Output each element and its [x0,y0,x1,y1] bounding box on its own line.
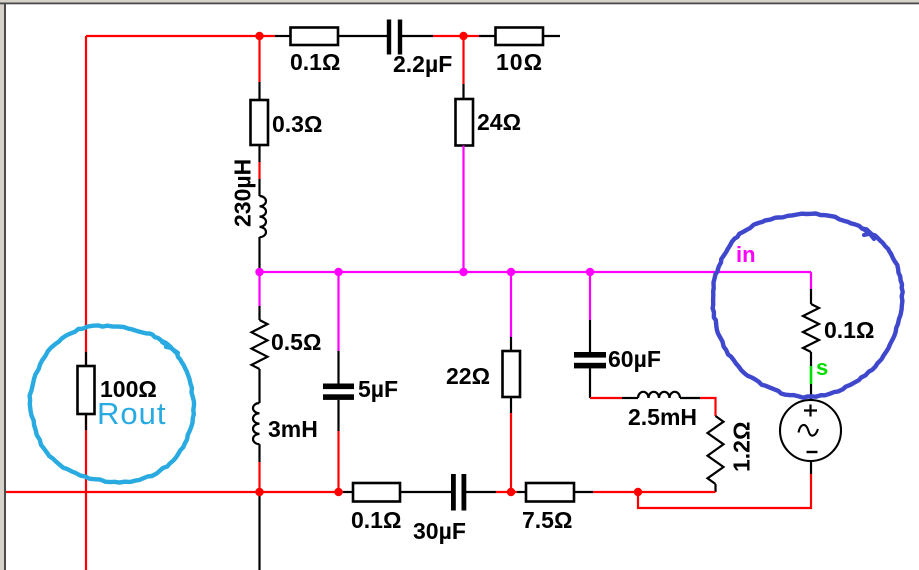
wire: R0.1 to C2.2 black [338,35,387,37]
wire: R22 black then red to bottom bus [510,397,512,413]
svg-text:60µF: 60µF [608,346,661,372]
wire: L2.5 black then red to corner [680,397,700,399]
svg-text:3mH: 3mH [268,416,318,442]
resistor 0.1Ω (bottom) [353,483,400,502]
wire: branch 60µF magenta [589,272,591,320]
svg-text:7.5Ω: 7.5Ω [522,507,572,533]
wire: red return jog to source [638,474,811,508]
capacitor 60µF [574,352,606,368]
wire: black continuation below bottom bus [258,492,260,570]
resistor 24Ω [456,99,474,146]
wire: black lead into R 10 [479,35,496,37]
node bus dot 2 [334,268,342,276]
svg-text:0.3Ω: 0.3Ω [272,111,322,137]
svg-text:in: in [736,242,756,267]
wire: node B red drop [462,36,464,84]
capacitor 2.2µF [387,20,402,55]
capacitor 5µF [323,384,354,400]
wire: black lead into R 24 [462,84,464,99]
wire: black lead into C5 [337,351,339,384]
wire: branch 22Ω magenta [510,272,512,337]
node bus dot 3 [459,268,467,276]
svg-text:10Ω: 10Ω [496,49,543,75]
node A: junction dot (259,36) [255,32,263,40]
resistor 0.1Ω (right zigzag) [803,304,819,352]
inductor 230µH [260,196,266,237]
svg-text:2.2µF: 2.2µF [393,51,452,77]
wire: bottom red bus left part [6,491,343,493]
wire: black lead into R 22 [510,337,512,351]
resistor 0.3Ω [251,100,269,145]
wire: R0.5 to L3m [258,369,260,403]
svg-text:0.5Ω: 0.5Ω [271,329,321,355]
node bus dot 5 [586,268,594,276]
wire: red into top-right node [433,35,479,37]
wire: black lead into R 7.5 [517,491,526,493]
wire: branch 0.5Ω magenta [258,272,260,306]
svg-text:1.2Ω: 1.2Ω [729,422,755,472]
wire: C5 black then red to bottom bus [337,400,339,431]
annotation: cyan freehand loop around Rout [30,325,194,482]
svg-text:0.1Ω: 0.1Ω [290,49,340,75]
capacitor 30µF [451,474,466,511]
wire: black lead into R 0.1 right [810,289,812,304]
resistor 0.5Ω (zigzag) [252,320,268,369]
svg-text:22Ω: 22Ω [446,363,490,389]
node bus dot 1 [255,268,263,276]
wire: L230 to bus [258,237,260,272]
resistor 100Ω (Rout) [78,366,95,414]
node B: junction dot (464,36) [459,32,467,40]
resistor 0.1Ω (top) [291,28,339,46]
node bottom dot 4 [634,488,642,496]
wire: bus end drop magenta at in node [810,272,812,289]
wire: C2.2 right black then red to node [402,35,433,37]
wire: branch 5µF magenta [337,272,339,351]
svg-text:30µF: 30µF [413,518,466,544]
wire: black lead into C60 [589,320,591,352]
wire: black lead into R 0.3 [258,82,260,100]
svg-text:0.1Ω: 0.1Ω [824,317,874,343]
wire: source bottom black stub [810,461,812,474]
svg-text:2.5mH: 2.5mH [628,404,697,430]
node bottom dot 1 [255,488,263,496]
svg-text:230µH: 230µH [230,159,256,227]
wire: top horizontal red y=36 [86,35,275,37]
node bus dot 4 [507,268,515,276]
wire: red from corner to L2.5 [590,397,622,399]
node bottom dot 3 [507,488,515,496]
wire: C60 down to corner [589,368,591,398]
wire: R7.5 black stub then red to 1.2Ω bottom [574,491,593,493]
wire: black lead into R 0.1 bottom [343,491,353,493]
wire: top black lead into R 0.1 [275,35,291,37]
wire: red drop from node A [258,36,260,82]
wire: L3m black then red to bottom bus [258,444,260,462]
wire: magenta mid bus y=272 [260,271,812,273]
wire: C30 black then red to node [466,491,496,493]
wire: R0.1b to C30 [400,491,451,493]
node bottom dot 2 [334,488,342,496]
wire: left vertical red rail x=86 [85,36,87,570]
wire: black stubs around R100 [85,352,87,430]
svg-text:Rout: Rout [97,396,166,431]
wire: black lead into L2.5 [622,397,638,399]
resistor 7.5Ω [526,483,574,502]
svg-text:5µF: 5µF [358,376,398,402]
wire: black lead into source [810,384,812,400]
wire: R10 right stub [543,35,560,37]
svg-text:0.1Ω: 0.1Ω [351,507,401,533]
inductor 2.5mH [638,392,680,398]
svg-text:s: s [816,355,828,380]
svg-text:24Ω: 24Ω [477,109,521,135]
inductor 3mH [253,403,260,444]
wire: black lead into R 0.5 [258,306,260,320]
annotation: blue freehand loop around in node [713,214,903,398]
wire: green segment node s [810,366,813,384]
wire: R0.3 to L230 black+red [258,145,260,162]
resistor 10Ω [496,28,544,46]
AC source V1 [780,400,841,461]
wire: below R0.1r black [810,352,812,366]
wire: magenta from R24 to bus [462,146,464,273]
resistor 1.2Ω (zigzag) [708,416,724,484]
wire: R1.2 to bottom bus [714,484,716,492]
resistor 22Ω [503,351,521,397]
